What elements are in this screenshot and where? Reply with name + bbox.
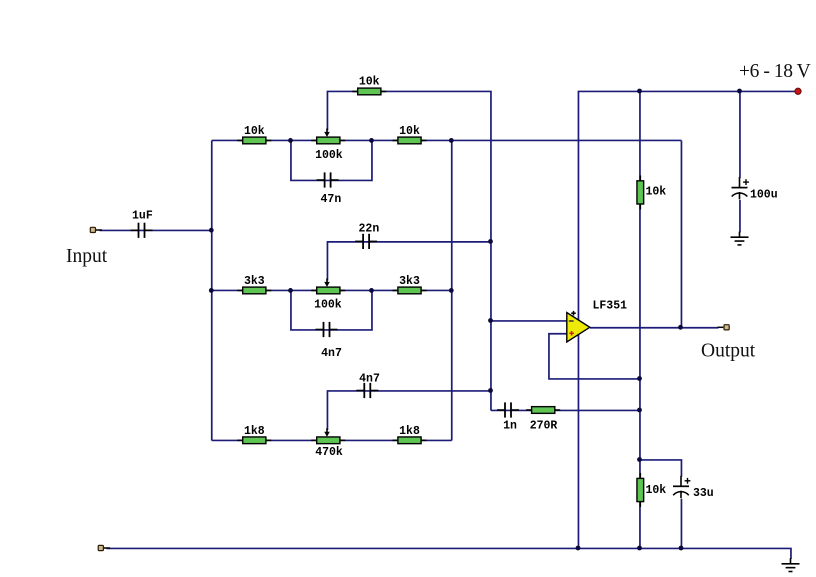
svg-text:3k3: 3k3 <box>399 275 420 288</box>
svg-text:10k: 10k <box>646 186 667 199</box>
svg-text:10k: 10k <box>399 125 420 138</box>
svg-text:1k8: 1k8 <box>399 425 420 438</box>
svg-text:270R: 270R <box>530 420 558 433</box>
svg-text:100k: 100k <box>315 149 343 162</box>
svg-text:47n: 47n <box>321 193 342 206</box>
svg-text:470k: 470k <box>315 446 343 459</box>
svg-text:22n: 22n <box>359 223 380 236</box>
svg-text:4n7: 4n7 <box>321 347 342 360</box>
svg-text:Output: Output <box>701 341 756 362</box>
svg-text:100u: 100u <box>750 189 778 202</box>
svg-text:10k: 10k <box>244 125 265 138</box>
svg-text:+6 - 18 V: +6 - 18 V <box>739 61 811 82</box>
svg-text:Input: Input <box>66 246 108 267</box>
svg-text:3k3: 3k3 <box>244 275 265 288</box>
svg-text:1n: 1n <box>503 420 517 433</box>
svg-text:33u: 33u <box>693 487 714 500</box>
svg-text:10k: 10k <box>359 75 380 88</box>
svg-text:10k: 10k <box>646 484 667 497</box>
svg-text:1k8: 1k8 <box>244 425 265 438</box>
svg-text:LF351: LF351 <box>593 300 628 313</box>
svg-text:100k: 100k <box>314 298 342 311</box>
svg-text:1uF: 1uF <box>132 210 153 223</box>
svg-text:4n7: 4n7 <box>359 373 380 386</box>
